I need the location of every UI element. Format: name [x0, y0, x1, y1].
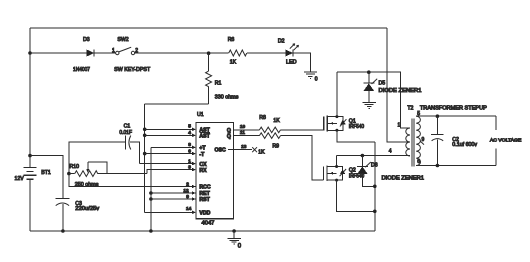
wire Q1 drain to transformer pin 1 — [337, 72, 410, 128]
svg-text:RX: RX — [199, 168, 207, 174]
svg-text:5: 5 — [188, 124, 191, 130]
wire R8 to Q1 gate — [281, 129, 324, 131]
svg-text:Q: Q — [227, 134, 231, 140]
svg-text:10: 10 — [240, 124, 246, 130]
svg-text:4: 4 — [389, 149, 392, 155]
wire left frame (battery loop) — [29, 28, 31, 231]
node D6 tap — [361, 154, 365, 158]
svg-text:9: 9 — [422, 137, 425, 143]
wire bottom rail — [30, 230, 375, 232]
svg-text:BT1: BT1 — [41, 170, 51, 176]
svg-text:8: 8 — [188, 142, 191, 148]
svg-text:U1: U1 — [197, 112, 204, 118]
transformer T2 core — [412, 118, 414, 166]
wire VDD bus V1 — [144, 104, 146, 212]
resistor R9 1K — [258, 133, 280, 156]
wire Q2 source path — [337, 180, 375, 211]
svg-text:SW KEY-DPST: SW KEY-DPST — [114, 67, 151, 73]
node ground on rail — [232, 229, 236, 233]
wire pin4 row Q2 drain to transformer — [337, 156, 410, 167]
resistor R6 1K — [228, 37, 247, 66]
svg-text:D3: D3 — [83, 37, 90, 43]
svg-text:6: 6 — [188, 148, 191, 154]
node D5 tap — [367, 70, 371, 74]
transistor Q1 IRF540 — [324, 115, 364, 132]
svg-text:6: 6 — [417, 159, 420, 165]
svg-text:11: 11 — [240, 130, 245, 136]
wire D3 to SW2 — [94, 52, 116, 54]
svg-text:9: 9 — [186, 194, 189, 200]
wire battery to D3 — [30, 52, 87, 54]
svg-text:1K: 1K — [258, 149, 265, 155]
svg-text:4: 4 — [188, 130, 191, 136]
svg-text:IRF540: IRF540 — [349, 174, 364, 180]
transistor Q2 IRF540 — [324, 165, 365, 182]
svg-text:250 ohms: 250 ohms — [75, 182, 99, 188]
wire top frame (+12V rail) — [30, 27, 387, 29]
wire pin2 RCC — [69, 174, 193, 187]
diode D3 1N4007 — [73, 37, 94, 73]
svg-text:14: 14 — [186, 206, 192, 212]
svg-text:1: 1 — [188, 158, 191, 164]
battery BT1 12V — [15, 154, 51, 182]
svg-text:C1: C1 — [124, 123, 131, 129]
svg-text:-T: -T — [199, 152, 205, 158]
wire battery to C3 — [30, 156, 63, 199]
node V1 pin5 — [143, 128, 147, 132]
svg-text:IRF540: IRF540 — [349, 124, 364, 130]
wire Q1 drain riser — [336, 72, 338, 116]
svg-text:R6: R6 — [228, 37, 235, 43]
svg-text:0.1uf 600v: 0.1uf 600v — [452, 142, 477, 148]
svg-text:220u/25v: 220u/25v — [75, 206, 99, 212]
wire R1 to VDD bus jog — [145, 103, 209, 105]
svg-text:TRANSFORMER STEPUP: TRANSFORMER STEPUP — [420, 105, 488, 111]
wire pin9 RST — [151, 198, 193, 200]
node V1 pin4 — [143, 134, 147, 138]
svg-text:T2: T2 — [407, 105, 413, 111]
wire SW2 to R6 — [135, 52, 229, 54]
svg-text:AST: AST — [199, 134, 210, 140]
svg-text:0: 0 — [238, 244, 242, 250]
svg-text:12: 12 — [183, 188, 189, 194]
svg-text:R10: R10 — [70, 164, 80, 170]
svg-text:0: 0 — [315, 77, 318, 83]
wire pin4 /AST — [145, 134, 193, 136]
node V2 on rail — [149, 229, 153, 233]
svg-text:2: 2 — [186, 181, 189, 187]
svg-text:LED: LED — [286, 60, 297, 66]
svg-text:R1: R1 — [215, 81, 222, 87]
svg-text:3: 3 — [188, 164, 191, 170]
svg-text:D6: D6 — [371, 162, 378, 168]
wire pin12 RET — [151, 192, 193, 194]
svg-text:0.01F: 0.01F — [119, 130, 132, 136]
svg-text:D5: D5 — [379, 81, 386, 87]
wire pin13 OSC stub with X — [234, 147, 257, 152]
capacitor C1 0.01F — [69, 123, 139, 173]
svg-text:1K: 1K — [230, 60, 237, 66]
resistor R8 1K — [259, 115, 280, 133]
wire right ground drop — [374, 142, 376, 231]
wire output right (AC port) — [495, 116, 497, 165]
potentiometer R10 250 ohms — [67, 162, 147, 188]
wire D2 to ground — [293, 53, 310, 71]
svg-text:R9: R9 — [272, 143, 279, 149]
ground 0 (bottom rail) — [227, 231, 241, 250]
node C3 on rail — [61, 229, 65, 233]
wire pin11 /Q to R9 — [234, 135, 260, 137]
wire Q1 source path — [337, 130, 375, 142]
svg-text:SW2: SW2 — [117, 37, 128, 43]
transformer T2 secondary coil — [416, 111, 424, 166]
wire pin1 CX — [139, 163, 192, 165]
svg-text:RST: RST — [199, 197, 210, 203]
svg-text:Q2: Q2 — [349, 167, 356, 173]
node V2 pin12 — [149, 191, 153, 195]
resistor R1 330 ohms — [206, 53, 239, 104]
node V1 pin6 — [143, 152, 147, 156]
node D6 to drop — [373, 185, 377, 189]
wire secondary bottom — [416, 165, 496, 167]
svg-text:AC VOLTAGE: AC VOLTAGE — [490, 137, 521, 143]
svg-text:DIODE ZENER1: DIODE ZENER1 — [379, 88, 422, 94]
svg-text:D2: D2 — [278, 38, 285, 44]
svg-text:1K: 1K — [273, 118, 280, 124]
capacitor C2 0.1uf 600v — [431, 114, 477, 167]
wire R6 to D2 — [247, 52, 286, 54]
node main-row / left frame — [28, 51, 32, 55]
svg-text:RCC: RCC — [199, 185, 210, 191]
svg-text:330 ohms: 330 ohms — [215, 94, 239, 100]
wire pin10 Q to R8 — [234, 129, 260, 131]
svg-text:+T: +T — [199, 146, 206, 152]
svg-text:4047: 4047 — [202, 221, 215, 227]
svg-text:1: 1 — [112, 48, 115, 54]
diode D5 zener — [363, 72, 421, 102]
svg-text:OSC: OSC — [215, 148, 226, 154]
svg-text:DIODE ZENER1: DIODE ZENER1 — [382, 175, 425, 181]
svg-text:12V: 12V — [15, 176, 25, 182]
transformer T2 primary coil — [398, 123, 411, 157]
svg-text:R8: R8 — [259, 115, 266, 121]
ground (D5) — [362, 102, 376, 108]
node V2 pin9 — [149, 197, 153, 201]
wire pin6 -T — [145, 153, 193, 155]
wire secondary top — [416, 115, 496, 117]
svg-text:1N4007: 1N4007 — [73, 67, 90, 73]
node R1 tap — [207, 51, 211, 55]
switch SW2 SW KEY-DPST — [112, 37, 151, 73]
wire center-tap feed — [387, 28, 410, 142]
node Q2 source to drop — [373, 210, 377, 214]
wire pin8 +T and ground bus V2 — [151, 146, 193, 148]
LED D2 — [278, 38, 299, 65]
wire pin14 VDD — [145, 211, 193, 213]
capacitor C3 220u/25v — [55, 199, 99, 231]
wire pin5 AST — [145, 128, 193, 130]
wire R9 to Q2 gate — [281, 136, 324, 180]
wire pin3 RX — [147, 170, 193, 174]
svg-text:VDD: VDD — [199, 211, 210, 217]
svg-text:1: 1 — [398, 123, 401, 129]
diode D6 zener — [357, 156, 424, 187]
op-amp U1 4047 box — [196, 112, 247, 226]
ground 0 (LED) — [304, 72, 318, 83]
